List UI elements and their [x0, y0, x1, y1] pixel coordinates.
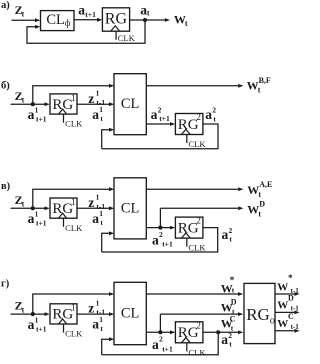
svg-text:1: 1	[99, 315, 103, 324]
svg-text:t+1: t+1	[159, 114, 170, 123]
svg-text:2: 2	[196, 216, 201, 226]
svg-text:CLK: CLK	[188, 243, 206, 253]
svg-text:ф: ф	[65, 18, 71, 28]
clock input CLK of RG1 (г)	[59, 319, 67, 324]
svg-text:t: t	[22, 9, 25, 18]
register RG1 (г)	[50, 304, 77, 324]
wire Z_t input (в)	[11, 207, 45, 209]
svg-text:г): г)	[1, 279, 10, 290]
svg-text:в): в)	[1, 181, 11, 192]
clock input CLK of RG2 (в)	[182, 233, 191, 238]
svg-text:о: о	[270, 316, 275, 327]
svg-text:t: t	[229, 339, 232, 348]
wire output W_C_t-1 (г)	[275, 330, 294, 332]
register RG (а)	[102, 8, 129, 31]
svg-text:б): б)	[1, 80, 10, 91]
svg-text:1: 1	[71, 303, 76, 313]
svg-text:a: a	[28, 211, 35, 226]
wire a2_t+1 from CL to RG2 (г)	[146, 331, 170, 333]
wire a2_t+1 from CL to RG2 (в)	[146, 227, 170, 229]
clock input CLK of RG1 (в)	[59, 213, 67, 218]
svg-text:2: 2	[196, 112, 201, 122]
svg-text:1: 1	[96, 299, 100, 308]
wire W_C_t / a2_t from RG2 to RGo (г)	[203, 331, 238, 333]
svg-text:CLK: CLK	[65, 223, 83, 233]
svg-text:t: t	[258, 85, 261, 94]
svg-text:D: D	[288, 294, 294, 303]
wire output W*_t-1 (г)	[275, 293, 294, 295]
svg-text:а): а)	[1, 0, 10, 11]
wire branch to CL top input (г)	[33, 294, 110, 314]
svg-text:W: W	[247, 78, 259, 92]
svg-text:a: a	[92, 107, 99, 122]
svg-text:t: t	[258, 190, 261, 199]
block CL (в)	[114, 178, 146, 239]
svg-text:CLK: CLK	[188, 347, 206, 357]
node on a2_t+1 wire (в)	[158, 226, 162, 230]
wire a_t+1 from CL to RG (а)	[74, 19, 97, 21]
svg-text:a: a	[92, 317, 99, 332]
svg-text:W: W	[247, 183, 259, 197]
svg-text:D: D	[259, 200, 265, 209]
register RG1 (в)	[50, 198, 77, 218]
svg-text:RG: RG	[105, 11, 128, 28]
wire output W_AE from CL (в)	[146, 188, 238, 190]
wire a2_t from RG2 back to CL (в)	[102, 228, 218, 252]
svg-text:t: t	[229, 234, 232, 243]
svg-text:1: 1	[99, 105, 103, 114]
register RG2 (в)	[175, 217, 203, 238]
wire z1/a1 from RG1 to CL (г)	[77, 313, 109, 315]
svg-text:2: 2	[159, 230, 163, 239]
svg-text:1: 1	[71, 197, 76, 207]
wire feedback a2_t to CL (б)	[102, 130, 110, 149]
svg-text:CLK: CLK	[65, 329, 83, 339]
node a1_t+1 junction (б)	[31, 102, 35, 106]
svg-text:2: 2	[159, 335, 163, 344]
svg-text:CL: CL	[121, 306, 140, 322]
svg-text:t: t	[213, 115, 216, 124]
svg-text:t+1: t+1	[36, 219, 47, 228]
svg-text:1: 1	[99, 209, 103, 218]
wire feedback from a2_t node to CL (г)	[102, 332, 219, 354]
register RG1 (б)	[50, 94, 77, 114]
clock input CLK of RG (а)	[111, 26, 120, 31]
svg-text:2: 2	[212, 106, 216, 115]
block CL (б)	[114, 74, 146, 135]
wire z1/a1 from RG1 to CL (б)	[77, 103, 109, 105]
wire output W_D (в)	[159, 208, 161, 227]
wire a2_t+1 from CL to RG2 (б)	[146, 123, 170, 125]
wire feedback a_t to CL (а)	[27, 20, 145, 43]
svg-text:a: a	[28, 107, 35, 122]
svg-text:t: t	[100, 324, 103, 333]
svg-text:1: 1	[96, 89, 100, 98]
svg-text:W: W	[247, 203, 259, 217]
svg-text:a: a	[205, 107, 212, 122]
svg-text:W: W	[277, 281, 288, 293]
svg-text:1: 1	[96, 193, 100, 202]
clock input CLK of RG2 (б)	[182, 129, 191, 134]
svg-text:t: t	[22, 305, 25, 314]
wire Z_t input (г)	[11, 313, 45, 315]
clock input CLK of RG1 (б)	[59, 109, 67, 114]
svg-text:CL: CL	[46, 12, 65, 28]
node a_t junction (а)	[143, 18, 147, 22]
wire z1/a1 from RG1 to CL (в)	[77, 207, 109, 209]
svg-text:t+1: t+1	[36, 115, 47, 124]
svg-text:C: C	[230, 315, 236, 324]
svg-text:*: *	[288, 274, 293, 284]
svg-text:t: t	[258, 210, 261, 219]
wire feedback a2_t to CL (в)	[102, 233, 110, 252]
svg-text:a: a	[92, 211, 99, 226]
wire W_D_t to RGo (г)	[159, 314, 161, 332]
register RG2 (г)	[175, 322, 203, 343]
svg-text:D: D	[231, 297, 237, 306]
svg-text:1: 1	[35, 210, 39, 219]
svg-text:t: t	[100, 218, 103, 227]
register RG2 (б)	[175, 114, 203, 135]
svg-text:t: t	[22, 95, 25, 104]
node a2_t junction (г)	[216, 330, 220, 334]
svg-text:CLK: CLK	[65, 119, 83, 129]
node a1_t+1 junction (г)	[31, 312, 35, 316]
block CL_f (а)	[41, 11, 75, 31]
svg-text:C: C	[288, 312, 294, 321]
svg-text:CL: CL	[121, 200, 140, 216]
svg-text:a: a	[151, 107, 158, 122]
svg-text:CLK: CLK	[188, 139, 206, 149]
output register RGo (г)	[244, 283, 275, 343]
svg-text:CL: CL	[121, 96, 140, 112]
svg-text:t: t	[185, 19, 188, 28]
svg-text:t: t	[147, 9, 150, 18]
svg-text:1: 1	[35, 315, 39, 324]
clock input CLK of RG2 (г)	[182, 338, 191, 343]
svg-text:1: 1	[71, 93, 76, 103]
svg-text:t-1: t-1	[291, 323, 300, 331]
wire feedback a2_t to CL (г)	[102, 339, 110, 355]
svg-text:t+1: t+1	[36, 324, 47, 333]
wire W*_t from CL to RGo (г)	[146, 293, 238, 295]
svg-text:a: a	[28, 317, 35, 332]
node a1_t+1 junction (в)	[31, 206, 35, 210]
svg-text:t+1: t+1	[162, 240, 173, 249]
wire a_t from RG (а)	[130, 19, 145, 21]
svg-text:RG: RG	[246, 305, 270, 324]
svg-text:z: z	[88, 91, 94, 106]
svg-text:t: t	[100, 114, 103, 123]
svg-text:B,F: B,F	[259, 76, 271, 85]
node on a2_t+1 wire (г)	[158, 330, 162, 334]
svg-text:a: a	[221, 332, 228, 347]
svg-text:t: t	[232, 285, 235, 294]
wire Z_t into CL (а)	[12, 19, 36, 21]
svg-text:a: a	[222, 227, 229, 242]
wire branch to CL top input (в)	[33, 189, 110, 208]
svg-text:z: z	[88, 195, 94, 210]
wire a2_t from RG2 back to CL (б)	[102, 124, 218, 149]
wire output W_BF from CL (б)	[146, 85, 238, 87]
wire output W_D_t-1 (г)	[275, 311, 294, 313]
svg-text:CLK: CLK	[118, 33, 136, 43]
block CL (г)	[114, 282, 146, 344]
wire Z_t input (б)	[11, 103, 45, 105]
svg-text:a: a	[152, 337, 159, 352]
svg-text:1: 1	[35, 105, 39, 114]
svg-text:A,E: A,E	[259, 180, 272, 189]
svg-text:z: z	[88, 301, 94, 316]
svg-text:t: t	[22, 200, 25, 209]
wire output w_t (а)	[145, 19, 165, 21]
svg-text:W: W	[277, 300, 288, 312]
svg-text:W: W	[277, 318, 288, 330]
svg-text:2: 2	[196, 320, 201, 330]
svg-text:t+1: t+1	[85, 10, 96, 19]
svg-text:a: a	[78, 3, 85, 18]
svg-text:t+1: t+1	[162, 344, 173, 353]
wire branch to CL top input (б)	[33, 86, 110, 104]
svg-text:a: a	[152, 233, 159, 248]
